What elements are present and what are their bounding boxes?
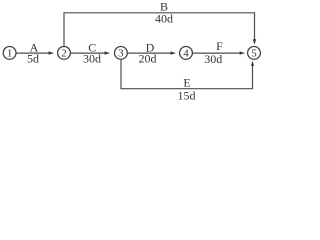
svg-text:30d: 30d [83,52,101,66]
svg-text:20d: 20d [139,52,157,66]
svg-text:40d: 40d [155,12,173,26]
svg-text:5: 5 [251,47,257,59]
svg-text:1: 1 [7,47,13,59]
svg-text:15d: 15d [178,89,196,103]
svg-text:F: F [216,39,223,53]
svg-text:2: 2 [61,47,67,59]
svg-text:30d: 30d [204,52,222,66]
svg-text:4: 4 [183,47,189,59]
svg-text:E: E [183,76,190,90]
svg-text:5d: 5d [27,52,39,66]
svg-text:3: 3 [118,47,124,59]
